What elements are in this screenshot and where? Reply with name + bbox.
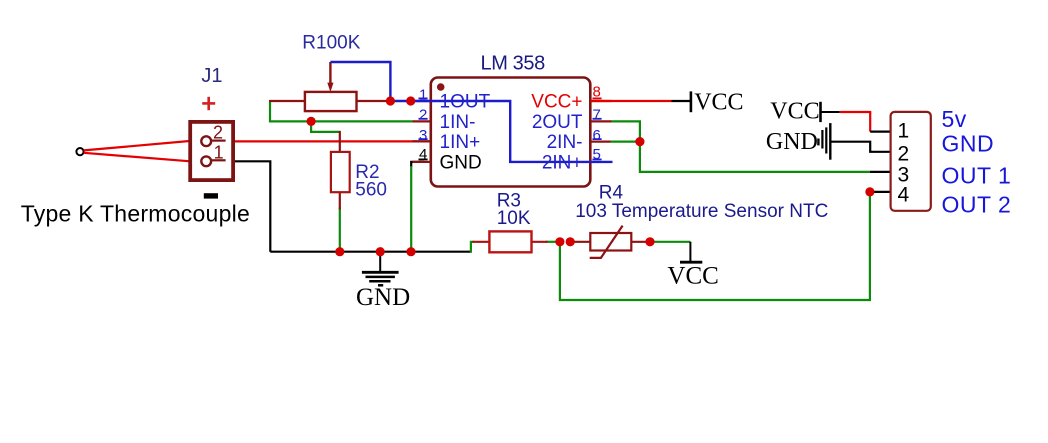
svg-text:2: 2 xyxy=(213,123,223,143)
svg-text:2: 2 xyxy=(898,142,910,165)
svg-text:1OUT: 1OUT xyxy=(440,92,491,113)
LM358 pin number 6 xyxy=(593,127,601,144)
junction dot connector pin4 xyxy=(865,187,874,196)
thermistor R4 body xyxy=(590,226,632,258)
svg-text:Type K Thermocouple: Type K Thermocouple xyxy=(21,201,250,227)
potentiometer R100K body xyxy=(305,92,357,111)
label GND (header) xyxy=(942,130,995,156)
svg-text:VCC: VCC xyxy=(694,90,743,116)
LM358 pin 6 stub xyxy=(590,141,610,143)
power symbol VCC (below R4, pointing down) xyxy=(667,242,718,290)
wire: junction down and right to connector pin3 (green) xyxy=(640,142,870,172)
junction dot pin2 net xyxy=(307,117,316,126)
connector pin number 2 xyxy=(898,142,910,165)
wire: jog from pin2 net down to R2 top (green) xyxy=(311,121,340,131)
LM358 pin number 4 xyxy=(419,146,427,163)
svg-text:J1: J1 xyxy=(201,65,222,87)
svg-text:LM 358: LM 358 xyxy=(481,53,546,75)
resistor R3 body xyxy=(489,231,531,252)
wire: pin8 to VCC (red) xyxy=(590,100,671,102)
wire: R4 right to VCC drop (green) xyxy=(646,241,690,243)
svg-text:OUT 1: OUT 1 xyxy=(942,162,1012,188)
label OUT 1 xyxy=(942,162,1012,188)
J1 pin 1 stub xyxy=(212,159,226,161)
J1 minus polarity mark xyxy=(204,193,218,198)
wire: R2 bottom to ground rail (green) xyxy=(339,207,341,251)
svg-text:OUT 2: OUT 2 xyxy=(942,192,1012,218)
svg-text:GND: GND xyxy=(942,130,995,156)
resistor R2 top lead xyxy=(339,131,341,153)
wire: LM358 pin6 to junction (green) xyxy=(611,141,640,143)
LM358 pin 1 stub xyxy=(413,100,431,102)
wire: thermocouple lead upper (red) xyxy=(84,141,190,150)
label LM 358 xyxy=(481,53,546,75)
svg-text:5v: 5v xyxy=(942,106,967,132)
svg-text:2IN-: 2IN- xyxy=(547,132,583,153)
wire: J1 pin1 to ground rail (black) xyxy=(227,161,270,251)
J1 pin number 2 xyxy=(213,123,223,143)
J1 pad circle pin2 xyxy=(201,136,211,146)
svg-text:VCC: VCC xyxy=(667,263,718,290)
svg-text:103 Temperature Sensor NTC: 103 Temperature Sensor NTC xyxy=(575,201,828,222)
LM358 pin number 1 xyxy=(419,86,427,103)
wire: VCC tap black segment xyxy=(672,100,691,102)
svg-text:1IN-: 1IN- xyxy=(440,112,476,133)
LM358 label 1OUT xyxy=(440,92,491,113)
wire: thermocouple lead lower (red) xyxy=(84,153,191,162)
svg-text:4: 4 xyxy=(419,146,427,163)
LM358 pin 4 stub xyxy=(413,161,431,163)
J1 pin number 1 xyxy=(214,143,224,163)
junction dot pin1 net xyxy=(406,96,415,105)
LM358 pin 7 stub xyxy=(590,120,611,122)
connector pin number 3 xyxy=(898,164,910,187)
svg-text:2: 2 xyxy=(419,107,427,124)
LM358 pin 3 stub xyxy=(413,140,431,142)
svg-text:8: 8 xyxy=(593,84,601,101)
svg-text:5: 5 xyxy=(593,146,601,163)
svg-text:10K: 10K xyxy=(497,208,531,229)
wire: jog up to R3 (green) xyxy=(471,242,474,253)
junction dot R4 output xyxy=(645,237,654,246)
wire: rail right portion near R3 (green) xyxy=(546,241,561,243)
label Type K Thermocouple xyxy=(21,201,250,227)
wire: 1OUT feedback to 2IN+ pin5 (blue) xyxy=(388,101,613,162)
thermistor R4 right lead xyxy=(631,241,649,243)
LM358 pin number 8 xyxy=(593,84,601,101)
connector pin number 4 xyxy=(898,184,910,207)
connector pin number 1 xyxy=(898,120,910,143)
wire: pot left to LM358 pin2 (green) xyxy=(270,102,413,121)
J1 plus polarity mark xyxy=(202,97,215,110)
svg-text:560: 560 xyxy=(355,180,387,201)
label R3 xyxy=(497,191,521,212)
LM358 pin number 7 xyxy=(593,107,601,124)
LM358 pin 2 stub xyxy=(413,120,431,122)
label 560 xyxy=(355,180,387,201)
LM358 label 1IN+ xyxy=(440,132,481,153)
svg-text:1: 1 xyxy=(898,120,910,143)
J1 pin 2 stub xyxy=(212,140,226,142)
LM358 label 2IN- xyxy=(547,132,583,153)
junction dot R3-R4 left xyxy=(555,237,564,246)
wire: LM358 pin7 to pin6 junction (green) xyxy=(612,121,640,141)
junction dot rail GND xyxy=(376,247,385,256)
resistor R3 left lead xyxy=(473,241,492,243)
wire: wiper loop (blue) xyxy=(330,62,390,101)
junction dot rail pin4 xyxy=(406,247,415,256)
svg-text:1IN+: 1IN+ xyxy=(440,132,481,153)
LM358 label GND xyxy=(440,152,482,173)
LM358 pin 8 stub xyxy=(590,100,611,102)
potentiometer R100K right lead xyxy=(357,100,388,102)
wire: ground rail (black) xyxy=(270,251,470,253)
resistor R2 bottom lead xyxy=(339,191,341,209)
wire: LM358 pin4 GND down to rail (green) xyxy=(410,166,412,252)
junction dot rail R2 xyxy=(335,247,344,256)
svg-text:GND: GND xyxy=(766,129,818,155)
LM358 pin digit underlines xyxy=(419,98,602,159)
op-amp U1 LM358 body xyxy=(431,78,591,187)
LM358 label 1IN- xyxy=(440,112,476,133)
label 103 Temperature Sensor NTC xyxy=(575,201,828,222)
svg-text:3: 3 xyxy=(419,127,427,144)
thermistor R4 left lead xyxy=(568,241,591,243)
thermocouple circle xyxy=(76,148,83,155)
power symbol VCC (pin8) xyxy=(691,90,744,116)
resistor R2 body xyxy=(331,152,350,192)
svg-text:1: 1 xyxy=(419,86,427,103)
svg-text:2OUT: 2OUT xyxy=(532,112,583,133)
svg-text:7: 7 xyxy=(593,107,601,124)
power symbol VCC (top right) xyxy=(770,99,820,125)
svg-text:GND: GND xyxy=(440,152,482,173)
label 5v xyxy=(942,106,967,132)
LM358 pin number 3 xyxy=(419,127,427,144)
potentiometer R100K left lead xyxy=(269,100,305,102)
connector output header body xyxy=(891,112,931,211)
svg-text:2IN+: 2IN+ xyxy=(542,152,583,173)
wire: J1 pin2 to LM358 pin3 (red) xyxy=(227,140,431,142)
resistor R3 right lead xyxy=(531,241,548,243)
label OUT 2 xyxy=(942,192,1012,218)
svg-text:VCC+: VCC+ xyxy=(531,92,582,113)
LM358 label 2IN+ xyxy=(542,152,583,173)
LM358 pin number 2 xyxy=(419,107,427,124)
label 10K xyxy=(497,208,531,229)
connector J1 body xyxy=(190,122,233,180)
label R2 xyxy=(355,162,379,183)
wire: GND to connector pin2 (black) xyxy=(830,142,890,152)
wire: VCC to connector pin1 (black then red) xyxy=(821,112,891,132)
svg-text:R100K: R100K xyxy=(302,33,360,54)
label J1 xyxy=(201,65,222,87)
potentiometer R100K wiper arrow xyxy=(327,62,333,92)
LM358 label VCC+ xyxy=(531,92,582,113)
J1 pad circle pin1 xyxy=(201,156,211,166)
wire: connector pin4 stub (black) xyxy=(870,191,891,193)
LM358 label 2OUT xyxy=(532,112,583,133)
ground symbol GND (bottom) xyxy=(356,252,410,312)
junction dot pin6 xyxy=(635,137,644,146)
svg-text:GND: GND xyxy=(356,284,410,311)
svg-text:1: 1 xyxy=(214,143,224,163)
junction dot blue loop xyxy=(386,96,395,105)
wire: connector pin3 stub (black) xyxy=(870,171,891,173)
label R100K xyxy=(302,33,360,54)
junction dot R3-R4 right xyxy=(566,237,575,246)
label R4 xyxy=(599,183,624,204)
LM358 pin number 5 xyxy=(593,146,601,163)
ground symbol GND (top right, rotated) xyxy=(766,123,830,160)
svg-text:6: 6 xyxy=(593,127,601,144)
svg-text:VCC: VCC xyxy=(770,99,819,125)
LM358 pin1 orientation dot xyxy=(437,83,445,91)
wire: bottom feedback loop to connector pin4 (green) xyxy=(560,192,870,300)
wire: LM358 pin4 GND jog (black) xyxy=(411,162,424,167)
svg-text:4: 4 xyxy=(898,184,910,207)
